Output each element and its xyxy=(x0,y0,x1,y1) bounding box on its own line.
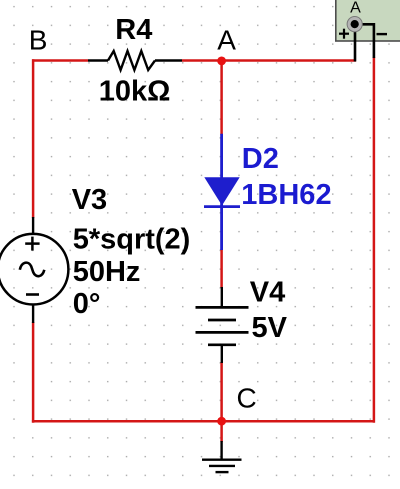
svg-text:5V: 5V xyxy=(252,312,288,344)
ammeter connector xyxy=(347,17,362,32)
ammeter minus terminal mark xyxy=(377,33,388,35)
ground xyxy=(202,441,242,472)
svg-text:A: A xyxy=(217,24,236,55)
battery V4 xyxy=(196,287,249,363)
wire V3 to bottom-left corner xyxy=(32,322,35,423)
wire B to R4 (top-left horizontal) xyxy=(32,59,88,62)
svg-text:A: A xyxy=(350,0,361,17)
svg-text:10kΩ: 10kΩ xyxy=(99,76,171,108)
svg-text:5*sqrt(2): 5*sqrt(2) xyxy=(73,224,191,256)
wire node A down to D2 xyxy=(220,61,223,136)
ammeter minus lead wire xyxy=(355,24,374,58)
ammeter plus lead wire xyxy=(354,24,357,62)
resistor R4 xyxy=(88,51,182,70)
node C junction dot xyxy=(217,417,226,426)
AC source V3 xyxy=(0,217,68,323)
wire R4 to node A to ammeter plus xyxy=(182,59,356,62)
wire right vertical ammeter minus to bottom xyxy=(373,57,376,423)
svg-text:C: C xyxy=(237,383,257,414)
node A junction dot xyxy=(217,57,226,66)
diode D2 xyxy=(204,134,240,250)
ammeter plus terminal mark xyxy=(339,33,349,35)
wire bottom horizontal C net xyxy=(32,420,375,423)
svg-text:0°: 0° xyxy=(73,288,101,320)
ammeter XMM1 body xyxy=(336,0,400,62)
svg-text:50Hz: 50Hz xyxy=(73,256,141,288)
svg-text:V4: V4 xyxy=(250,277,285,309)
svg-text:D2: D2 xyxy=(242,143,279,175)
svg-text:1BH62: 1BH62 xyxy=(241,179,331,211)
wire V4 to node C xyxy=(220,362,223,422)
wire D2 to V4 xyxy=(220,249,223,288)
svg-text:B: B xyxy=(29,24,48,55)
svg-text:V3: V3 xyxy=(72,184,107,216)
svg-text:R4: R4 xyxy=(115,14,152,46)
wire node C to ground xyxy=(220,422,223,443)
wire left vertical B to V3 xyxy=(32,59,35,218)
